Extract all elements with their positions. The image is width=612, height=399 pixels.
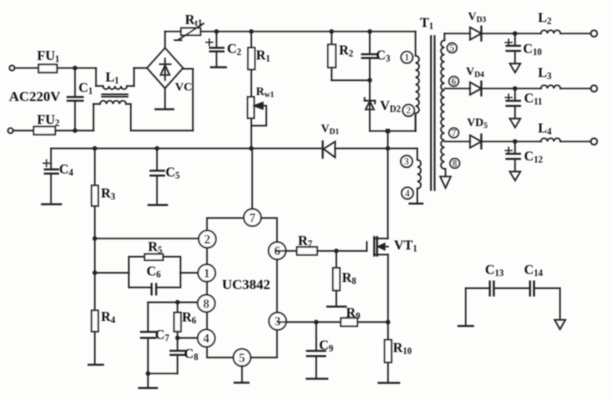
svg-text:R3: R3 <box>101 186 116 202</box>
svg-text:C9: C9 <box>319 338 334 354</box>
svg-text:UC3842: UC3842 <box>222 278 270 293</box>
svg-text:VT1: VT1 <box>394 238 418 254</box>
svg-text:C1: C1 <box>79 80 94 96</box>
svg-text:1: 1 <box>405 54 410 64</box>
svg-text:C6: C6 <box>147 264 162 280</box>
svg-text:Rt1: Rt1 <box>185 12 203 28</box>
svg-text:8: 8 <box>203 297 209 311</box>
svg-text:2: 2 <box>406 107 411 117</box>
svg-text:C8: C8 <box>184 346 199 362</box>
svg-text:C10: C10 <box>523 41 542 57</box>
svg-text:L3: L3 <box>538 65 552 81</box>
svg-text:6: 6 <box>274 244 280 258</box>
svg-text:R1: R1 <box>256 48 271 64</box>
svg-text:R4: R4 <box>101 309 116 325</box>
svg-text:VD2: VD2 <box>380 98 401 114</box>
svg-text:R2: R2 <box>339 43 354 59</box>
svg-text:R10: R10 <box>393 340 412 356</box>
svg-text:C11: C11 <box>524 91 543 107</box>
svg-text:C13: C13 <box>485 262 504 278</box>
svg-text:VD4: VD4 <box>466 66 484 79</box>
svg-text:7: 7 <box>249 211 255 225</box>
svg-text:4: 4 <box>203 332 210 346</box>
svg-text:7: 7 <box>451 129 456 139</box>
svg-text:R9: R9 <box>346 305 361 321</box>
svg-text:R8: R8 <box>342 270 357 286</box>
svg-text:L4: L4 <box>538 121 552 137</box>
svg-text:T1: T1 <box>420 15 434 31</box>
svg-text:R5: R5 <box>148 239 163 255</box>
svg-text:AC220V: AC220V <box>9 90 60 105</box>
svg-text:C3: C3 <box>376 48 391 64</box>
svg-text:C12: C12 <box>524 149 543 165</box>
svg-text:6: 6 <box>451 77 456 87</box>
svg-text:4: 4 <box>405 189 410 199</box>
svg-text:Rw1: Rw1 <box>256 86 274 99</box>
svg-text:C7: C7 <box>155 327 170 343</box>
svg-text:FU2: FU2 <box>37 112 60 128</box>
svg-text:R6: R6 <box>182 310 197 326</box>
svg-text:2: 2 <box>204 233 210 247</box>
svg-text:L2: L2 <box>538 10 552 26</box>
svg-text:C2: C2 <box>227 41 242 57</box>
svg-text:C4: C4 <box>59 162 74 178</box>
svg-text:VD3: VD3 <box>468 11 486 24</box>
svg-text:8: 8 <box>452 159 457 169</box>
svg-text:5: 5 <box>450 44 455 54</box>
svg-text:1: 1 <box>204 267 210 281</box>
svg-text:FU1: FU1 <box>37 48 60 64</box>
svg-text:L1: L1 <box>106 70 120 86</box>
svg-text:VC: VC <box>175 80 192 94</box>
svg-text:VD1: VD1 <box>321 123 339 136</box>
svg-text:R7: R7 <box>298 233 313 249</box>
svg-text:3: 3 <box>274 315 280 329</box>
svg-text:3: 3 <box>404 158 409 168</box>
svg-text:C14: C14 <box>524 262 543 278</box>
svg-text:5: 5 <box>239 351 245 365</box>
svg-text:C5: C5 <box>166 165 181 181</box>
svg-text:VD5: VD5 <box>467 117 488 130</box>
